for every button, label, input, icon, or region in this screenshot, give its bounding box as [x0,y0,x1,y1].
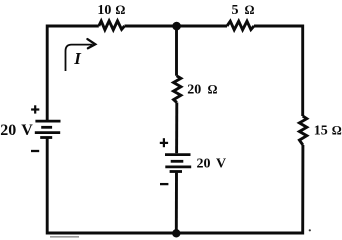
label 20 V (left source) [0,122,33,139]
svg-text:Ω: Ω [208,83,218,97]
label 20 V (middle source) [197,157,227,172]
wire right lower and bottom-right segment [176,145,303,233]
svg-text:Ω: Ω [115,3,125,17]
polarity - of battery V2 [160,183,168,185]
resistor 20 Ohm vertical zigzag [174,76,181,103]
label 20 Ohm (middle resistor) [187,83,217,98]
svg-text:10: 10 [97,3,111,18]
svg-text:5: 5 [232,3,239,18]
resistor 10 Ohm zigzag [99,21,125,30]
wire from 10 Ohm resistor to node A [125,25,177,28]
wire middle branch from node A to 20 Ohm resistor [175,26,178,76]
svg-text:20: 20 [0,122,16,139]
label 5 Ohm [232,3,255,18]
svg-text:15: 15 [314,124,328,139]
wire from battery V2 to node B [175,173,178,233]
wire bottom-left segment and left wire lower (V1 - side) [47,138,176,233]
scan speck near bottom-right [309,229,311,231]
svg-text:V: V [21,122,33,139]
wire from node A to 5 Ohm resistor [177,25,228,28]
wire from 20 Ohm resistor to battery V2 [175,103,178,154]
resistor 15 Ohm vertical zigzag [299,116,306,145]
wire top-left segment and left wire upper (V1 + side) [47,26,99,120]
label 15 Ohm [314,124,342,139]
svg-text:Ω: Ω [332,124,342,138]
node A junction dot (top middle) [172,22,181,31]
svg-text:V: V [216,157,226,172]
polarity + of battery V2 [160,138,168,147]
resistor 5 Ohm zigzag [227,21,254,30]
svg-text:Ω: Ω [245,3,255,17]
label 10 Ohm [97,3,125,18]
polarity + of battery V1 [31,105,39,113]
node B junction dot (bottom middle) [172,229,180,237]
battery V1 20 V plates (left source) [35,121,61,137]
polarity - of battery V1 [31,150,39,152]
svg-text:20: 20 [187,83,201,98]
battery V2 20 V plates (middle source) [165,155,191,172]
scan smudge under bottom-left wire [50,236,79,238]
wire top-right segment and right wire upper [254,26,303,116]
svg-text:20: 20 [197,157,211,172]
current arrow I (bent arrow) [66,39,96,71]
